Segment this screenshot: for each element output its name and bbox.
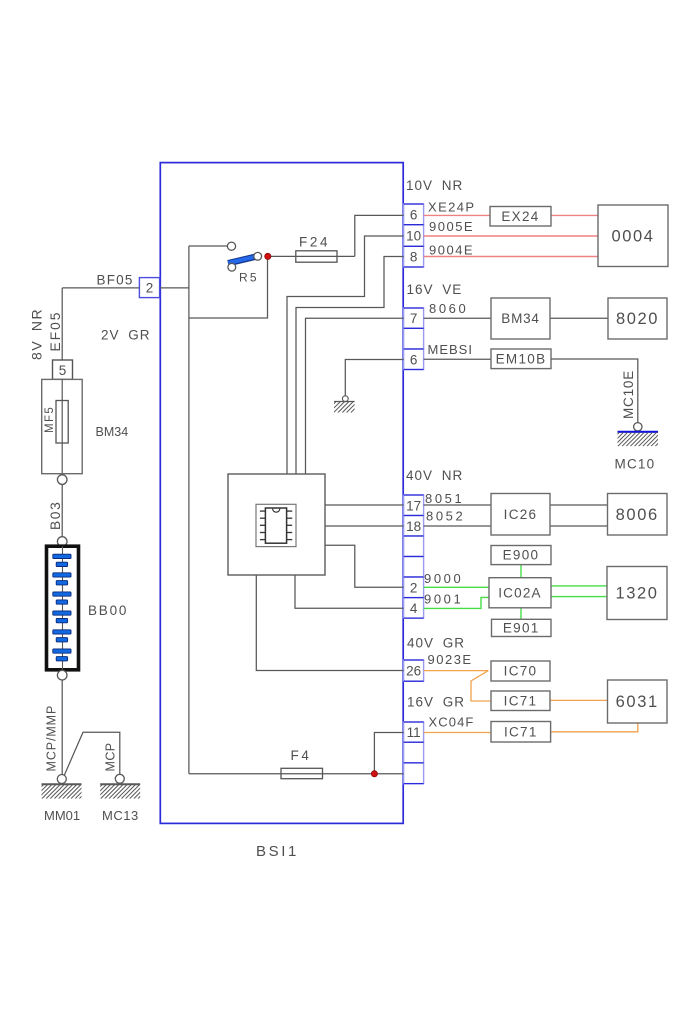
component 0004 box [598, 205, 668, 267]
connector circle below BM34 [57, 475, 67, 485]
connector BM34 box [491, 298, 550, 339]
wire: pin 6 MEBSI to internal ground [345, 360, 403, 396]
svg-text:MCP: MCP [104, 743, 118, 772]
svg-text:8051: 8051 [425, 491, 464, 506]
switch R5 blade (blue) [228, 257, 255, 263]
svg-text:MC10E: MC10E [621, 370, 636, 419]
connector pin 17 box on BSI1 right edge [404, 495, 424, 516]
CPU block inside BSI1 [228, 474, 325, 575]
internal ground hatching [325, 402, 362, 413]
connector circle below battery [57, 670, 67, 680]
connector pin (unlabelled) box on BSI1 right edge [404, 557, 424, 578]
ground MC13 hatching [88, 785, 152, 799]
svg-text:EM10B: EM10B [496, 351, 547, 366]
BSI1 control unit box [160, 163, 403, 824]
wire (orange) lower IC71 to 6031 [551, 723, 638, 732]
connector circle above battery [57, 537, 67, 547]
svg-text:10V NR: 10V NR [406, 178, 463, 193]
wire: pin 8 to CPU top [296, 257, 404, 475]
connector IC02A box [489, 578, 551, 608]
IC chip body [265, 508, 286, 543]
ground MC10 hatching [606, 432, 670, 446]
svg-text:XE24P: XE24P [428, 200, 475, 215]
svg-text:BF05: BF05 [97, 273, 134, 288]
fuse F24 body [296, 251, 337, 262]
ground connector circle MC10 [634, 423, 642, 431]
connector pin 26 box on BSI1 right edge [404, 660, 424, 681]
wire: feed to switch R5 fixed contact [189, 245, 227, 247]
wire: left long vertical feed (pin 2 net) [188, 246, 190, 774]
wire 9000 (green) pin2 to IC02A [424, 586, 489, 588]
connector IC26 box [491, 494, 550, 536]
wire 8051 pin17 to IC26 [424, 504, 491, 506]
wire (green) E900 to IC02A [520, 565, 522, 578]
wire 9023E (orange) pin26 to IC70 [424, 670, 489, 672]
svg-text:8020: 8020 [616, 310, 659, 328]
connector pin 2 box on BSI1 right edge [404, 577, 424, 598]
svg-text:16V VE: 16V VE [407, 282, 463, 297]
wire IC26 to 8006 (lower) [550, 525, 608, 527]
ground MC13 bar [100, 783, 140, 785]
component 1320 box [607, 567, 667, 620]
svg-text:26: 26 [406, 664, 421, 679]
connector pin 6 box on BSI1 right edge [404, 349, 424, 370]
wire BM34 to 8020 [550, 317, 608, 319]
battery BB00 box [47, 546, 79, 670]
connector pin (unlabelled) box on BSI1 right edge [404, 742, 424, 763]
connector EX24 box [490, 207, 551, 227]
svg-text:F24: F24 [299, 235, 330, 250]
wire: BF05 from pin 2 to left [62, 287, 139, 289]
connector pin (unlabelled) box on BSI1 right edge [404, 328, 424, 349]
wire: CPU bottom to pin 26 [256, 575, 403, 671]
svg-text:XC04F: XC04F [429, 715, 475, 730]
pin 5 box on fuse unit BM34 [53, 360, 73, 379]
connector pin 11 box on BSI1 right edge [404, 722, 424, 742]
svg-text:IC26: IC26 [504, 507, 538, 522]
svg-text:BSI1: BSI1 [256, 843, 299, 860]
switch R5 lower contact [228, 263, 236, 271]
connector pin 8 box on BSI1 right edge [404, 246, 424, 267]
component 8006 box [608, 494, 668, 536]
wire (orange) branch to IC71 [471, 671, 491, 701]
pin box dividers (dark blue) [404, 494, 424, 496]
svg-text:1320: 1320 [615, 585, 658, 603]
CPU inner frame [256, 504, 296, 546]
wire XE24P (red) pin6 to EX24 [424, 214, 490, 216]
svg-text:MCP/MMP: MCP/MMP [45, 705, 59, 772]
wire: pin 10 to CPU top [287, 236, 404, 474]
wire B03 [61, 484, 63, 536]
svg-text:IC02A: IC02A [498, 585, 542, 600]
wire MEBSI pin6 to EM10B [424, 358, 491, 360]
connector IC71 box (upper) [491, 691, 550, 711]
wire: fuse F24 output up to pin 6 [355, 215, 404, 256]
svg-text:6031: 6031 [616, 693, 659, 711]
svg-text:8052: 8052 [426, 509, 465, 524]
wire: pin 2 stub to vertical feed [160, 287, 189, 289]
svg-text:40V NR: 40V NR [406, 468, 463, 483]
wire 8060 pin7 to BM34 [424, 317, 491, 319]
internal ground connector circle (MEBSI) [342, 396, 348, 402]
wire XC04F (orange) pin11 to IC71 [424, 732, 491, 734]
svg-text:9023E: 9023E [428, 652, 473, 667]
svg-text:9005E: 9005E [429, 219, 474, 234]
svg-text:9000: 9000 [424, 571, 463, 586]
svg-text:9004E: 9004E [429, 243, 474, 258]
IC notch [273, 509, 280, 513]
switch R5 fixed contact top [227, 242, 235, 250]
svg-text:EF05: EF05 [48, 311, 63, 352]
svg-text:16V GR: 16V GR [407, 695, 465, 710]
wire: CPU bottom to pin 4 [295, 575, 404, 608]
wire (green) IC02A to 1320 upper [551, 585, 607, 587]
svg-text:BM34: BM34 [96, 425, 129, 439]
wire: BF05 down to pin 5 [61, 288, 63, 360]
wire: F4 bottom distribution to bottom pin box [189, 773, 404, 775]
connector EM10B box [491, 349, 551, 369]
wire: switch output through fuse F24 [268, 255, 355, 257]
wire through fuse unit [61, 379, 63, 473]
svg-text:R5: R5 [239, 271, 259, 285]
battery cell plates (blue) [53, 554, 71, 661]
wire 9001 (green) pin4 to IC02A [424, 597, 489, 608]
wire (green) IC02A to E901 [520, 608, 522, 620]
wire (red) EX24 to 0004 [551, 214, 598, 216]
svg-text:BM34: BM34 [501, 311, 539, 326]
wire: pin 7 to CPU top [306, 318, 404, 474]
junction red dot on F4 net [371, 771, 377, 777]
svg-text:40V GR: 40V GR [407, 636, 465, 651]
wire (orange) IC71 to 6031 [550, 699, 607, 701]
svg-text:IC71: IC71 [504, 724, 538, 739]
connector E900 box [491, 546, 551, 565]
connector pin 4 box on BSI1 right edge [404, 598, 424, 619]
svg-text:MEBSI: MEBSI [428, 342, 473, 357]
connector IC70 box [491, 661, 550, 681]
pin box dividers (dark blue) [404, 203, 424, 205]
svg-text:8060: 8060 [429, 301, 468, 316]
switch R5 moving contact [254, 252, 262, 260]
ground MM01 hatching [30, 785, 94, 799]
fuse F4 body [281, 768, 323, 778]
fuse unit BM34 box [42, 379, 82, 473]
svg-text:IC70: IC70 [504, 664, 538, 679]
connector pin (unlabelled) box on BSI1 right edge [404, 763, 424, 784]
wire: CPU to pin 18 [325, 525, 404, 527]
internal ground bar [334, 401, 355, 403]
wire EM10B to ground MC10 [551, 359, 638, 423]
ground MM01 bar [42, 783, 82, 785]
svg-text:MC10: MC10 [615, 457, 656, 472]
connector E901 box [492, 619, 552, 636]
ground connector circle MC13 [115, 774, 124, 783]
pin box dividers (dark blue) [404, 307, 424, 309]
pin box dividers (dark blue) [404, 659, 424, 661]
battery center line [62, 546, 64, 670]
svg-text:EX24: EX24 [501, 209, 539, 224]
svg-text:MM01: MM01 [44, 808, 80, 823]
svg-text:2V GR: 2V GR [101, 328, 151, 343]
ground connector circle MM01 [57, 775, 66, 784]
wire 9004E (red) pin8 to 0004 [424, 256, 598, 258]
junction red dot at switch common [265, 253, 271, 259]
svg-text:E901: E901 [503, 620, 540, 635]
svg-text:IC71: IC71 [504, 693, 538, 708]
connector IC71 box (lower) [491, 722, 551, 743]
wire IC26 to 8006 (upper) [550, 504, 608, 506]
svg-text:B03: B03 [48, 501, 63, 530]
svg-text:2: 2 [410, 580, 418, 595]
connector pin (unlabelled) box on BSI1 right edge [404, 536, 424, 557]
connector pin 10 box on BSI1 right edge [404, 225, 424, 247]
connector pin 7 box on BSI1 right edge [404, 308, 424, 328]
component 6031 box [608, 680, 668, 723]
svg-text:MF5: MF5 [44, 406, 56, 433]
svg-text:11: 11 [407, 725, 421, 740]
svg-text:5: 5 [59, 363, 67, 378]
wire: lower link to switch common (red dot) [189, 260, 268, 318]
svg-text:7: 7 [410, 311, 418, 326]
svg-text:E900: E900 [503, 548, 540, 563]
connector pin 6 box on BSI1 right edge [404, 204, 424, 225]
svg-text:8: 8 [410, 250, 418, 265]
svg-text:MC13: MC13 [102, 808, 139, 823]
wire: pin 11 branch down to F4 net [374, 733, 403, 774]
wire 9005E (red) pin10 to 0004 [424, 235, 598, 237]
svg-text:0004: 0004 [611, 228, 654, 246]
pin box dividers (dark blue) [404, 721, 424, 723]
wire: CPU to pin 2 [325, 545, 404, 587]
wire: CPU to pin 17 [325, 504, 404, 506]
ground MC10 bar (blue) [618, 431, 659, 433]
svg-text:8006: 8006 [616, 506, 659, 524]
svg-text:9001: 9001 [424, 592, 463, 607]
wire MCP/MMP to ground [61, 680, 63, 774]
svg-text:8V NR: 8V NR [29, 308, 45, 360]
svg-text:10: 10 [406, 229, 421, 244]
pin 2 box on BSI1 left edge [139, 278, 159, 298]
fuse MF5 body [56, 401, 68, 444]
svg-text:18: 18 [406, 519, 421, 534]
IC pins [260, 511, 292, 539]
wire (green) IC02A to 1320 lower [551, 596, 607, 598]
component 8020 box [608, 298, 667, 339]
svg-text:BB00: BB00 [88, 603, 128, 618]
svg-text:6: 6 [410, 207, 418, 222]
svg-text:17: 17 [406, 498, 421, 513]
connector pin 18 box on BSI1 right edge [404, 516, 424, 537]
svg-text:6: 6 [410, 352, 418, 367]
svg-text:F4: F4 [291, 748, 312, 763]
svg-text:4: 4 [410, 601, 418, 616]
wire 8052 pin18 to IC26 [424, 525, 491, 527]
wire link MM01 to MC13 (diagonal) [64, 732, 120, 775]
svg-text:2: 2 [146, 281, 154, 296]
